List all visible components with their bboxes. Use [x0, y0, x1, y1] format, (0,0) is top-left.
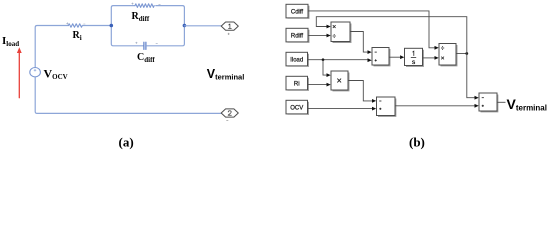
node A junction — [110, 24, 114, 28]
polarity mark port 2 — [227, 119, 229, 121]
product block U2 — [331, 71, 349, 91]
wire OCV to sum U6 — [308, 107, 372, 109]
svg-text:Rdiff: Rdiff — [291, 33, 304, 39]
resistor Ri — [68, 24, 82, 27]
svg-text:Rdiff: Rdiff — [132, 11, 150, 23]
svg-text:VOCV: VOCV — [44, 66, 68, 81]
svg-text:Iload: Iload — [290, 57, 303, 63]
polarity mark port 1 — [228, 33, 230, 35]
polarity marks Cdiff — [136, 42, 158, 44]
polarity marks Rdiff — [132, 3, 161, 5]
sum block U3 — [372, 48, 390, 66]
wire divide U5 to junction — [456, 53, 467, 55]
divide block U5 — [439, 44, 457, 66]
sum block U6 — [377, 97, 396, 116]
svg-text:Ri: Ri — [73, 30, 82, 42]
wire Cdiff to divide U5 — [309, 11, 435, 48]
wire divide U1 to sum U3 — [350, 32, 368, 53]
svg-text:(b): (b) — [409, 135, 425, 150]
svg-text:Vterminal: Vterminal — [207, 67, 245, 81]
svg-text:OCV: OCV — [290, 105, 303, 111]
wire Iload to sum U3 — [308, 59, 368, 61]
current arrow I_load — [17, 47, 22, 97]
pin number 1 — [229, 24, 232, 29]
node B junction — [183, 24, 187, 28]
wire sum U6 to sum U7 — [395, 105, 475, 107]
svg-text:Vterminal: Vterminal — [507, 96, 547, 113]
junction on Vdiff wire — [465, 52, 468, 55]
svg-text:Cdiff: Cdiff — [137, 52, 155, 64]
block Iload source — [286, 52, 309, 66]
port 2 — [221, 109, 238, 117]
divide block U1 — [331, 22, 351, 43]
resistor Rdiff — [135, 4, 154, 8]
pin number 2 — [228, 111, 231, 116]
block Rdiff source — [286, 28, 309, 42]
wire feedback Vdiff to divide U1 — [316, 17, 467, 54]
block OCV source — [286, 100, 309, 114]
wire integrator U4 to divide U5 — [423, 57, 435, 59]
integrator block U4 (1/s) — [405, 48, 424, 66]
wire: node A down and to capacitor Cdiff — [111, 26, 143, 46]
junction on Iload wire — [322, 58, 325, 61]
svg-text:(a): (a) — [119, 135, 134, 150]
wire: source bottom to port 2 — [35, 77, 221, 114]
polarity marks Ri — [67, 23, 86, 25]
wire: source top to resistor Ri — [35, 26, 68, 68]
wire: resistor Rdiff to node B — [156, 6, 185, 26]
svg-text:Cdiff: Cdiff — [291, 9, 304, 15]
block Ri source — [286, 76, 309, 90]
wire Rdiff to divide U1 — [309, 34, 327, 36]
block Cdiff source — [286, 4, 309, 18]
svg-text:Iload: Iload — [2, 35, 19, 48]
wire Vdiff junction to sum U7 — [467, 54, 475, 98]
wire: node A up and to resistor Rdiff — [111, 6, 135, 26]
voltage source VOCV — [30, 68, 41, 77]
wire Ri to product U2 — [308, 84, 327, 86]
wire sum U7 to output label — [497, 101, 506, 103]
sum block U7 (output) — [479, 93, 498, 112]
wire: capacitor Cdiff to node B — [147, 26, 185, 46]
wire: node B to port 1 — [184, 25, 221, 27]
svg-text:Ri: Ri — [294, 81, 300, 87]
wire: resistor Ri to node A — [82, 25, 111, 27]
wire product U2 to sum U6 — [348, 81, 372, 101]
wire sum U3 to integrator U4 — [389, 56, 400, 58]
port 1 — [221, 22, 238, 30]
capacitor Cdiff — [144, 42, 146, 49]
wire junction to product U2 — [323, 60, 327, 75]
